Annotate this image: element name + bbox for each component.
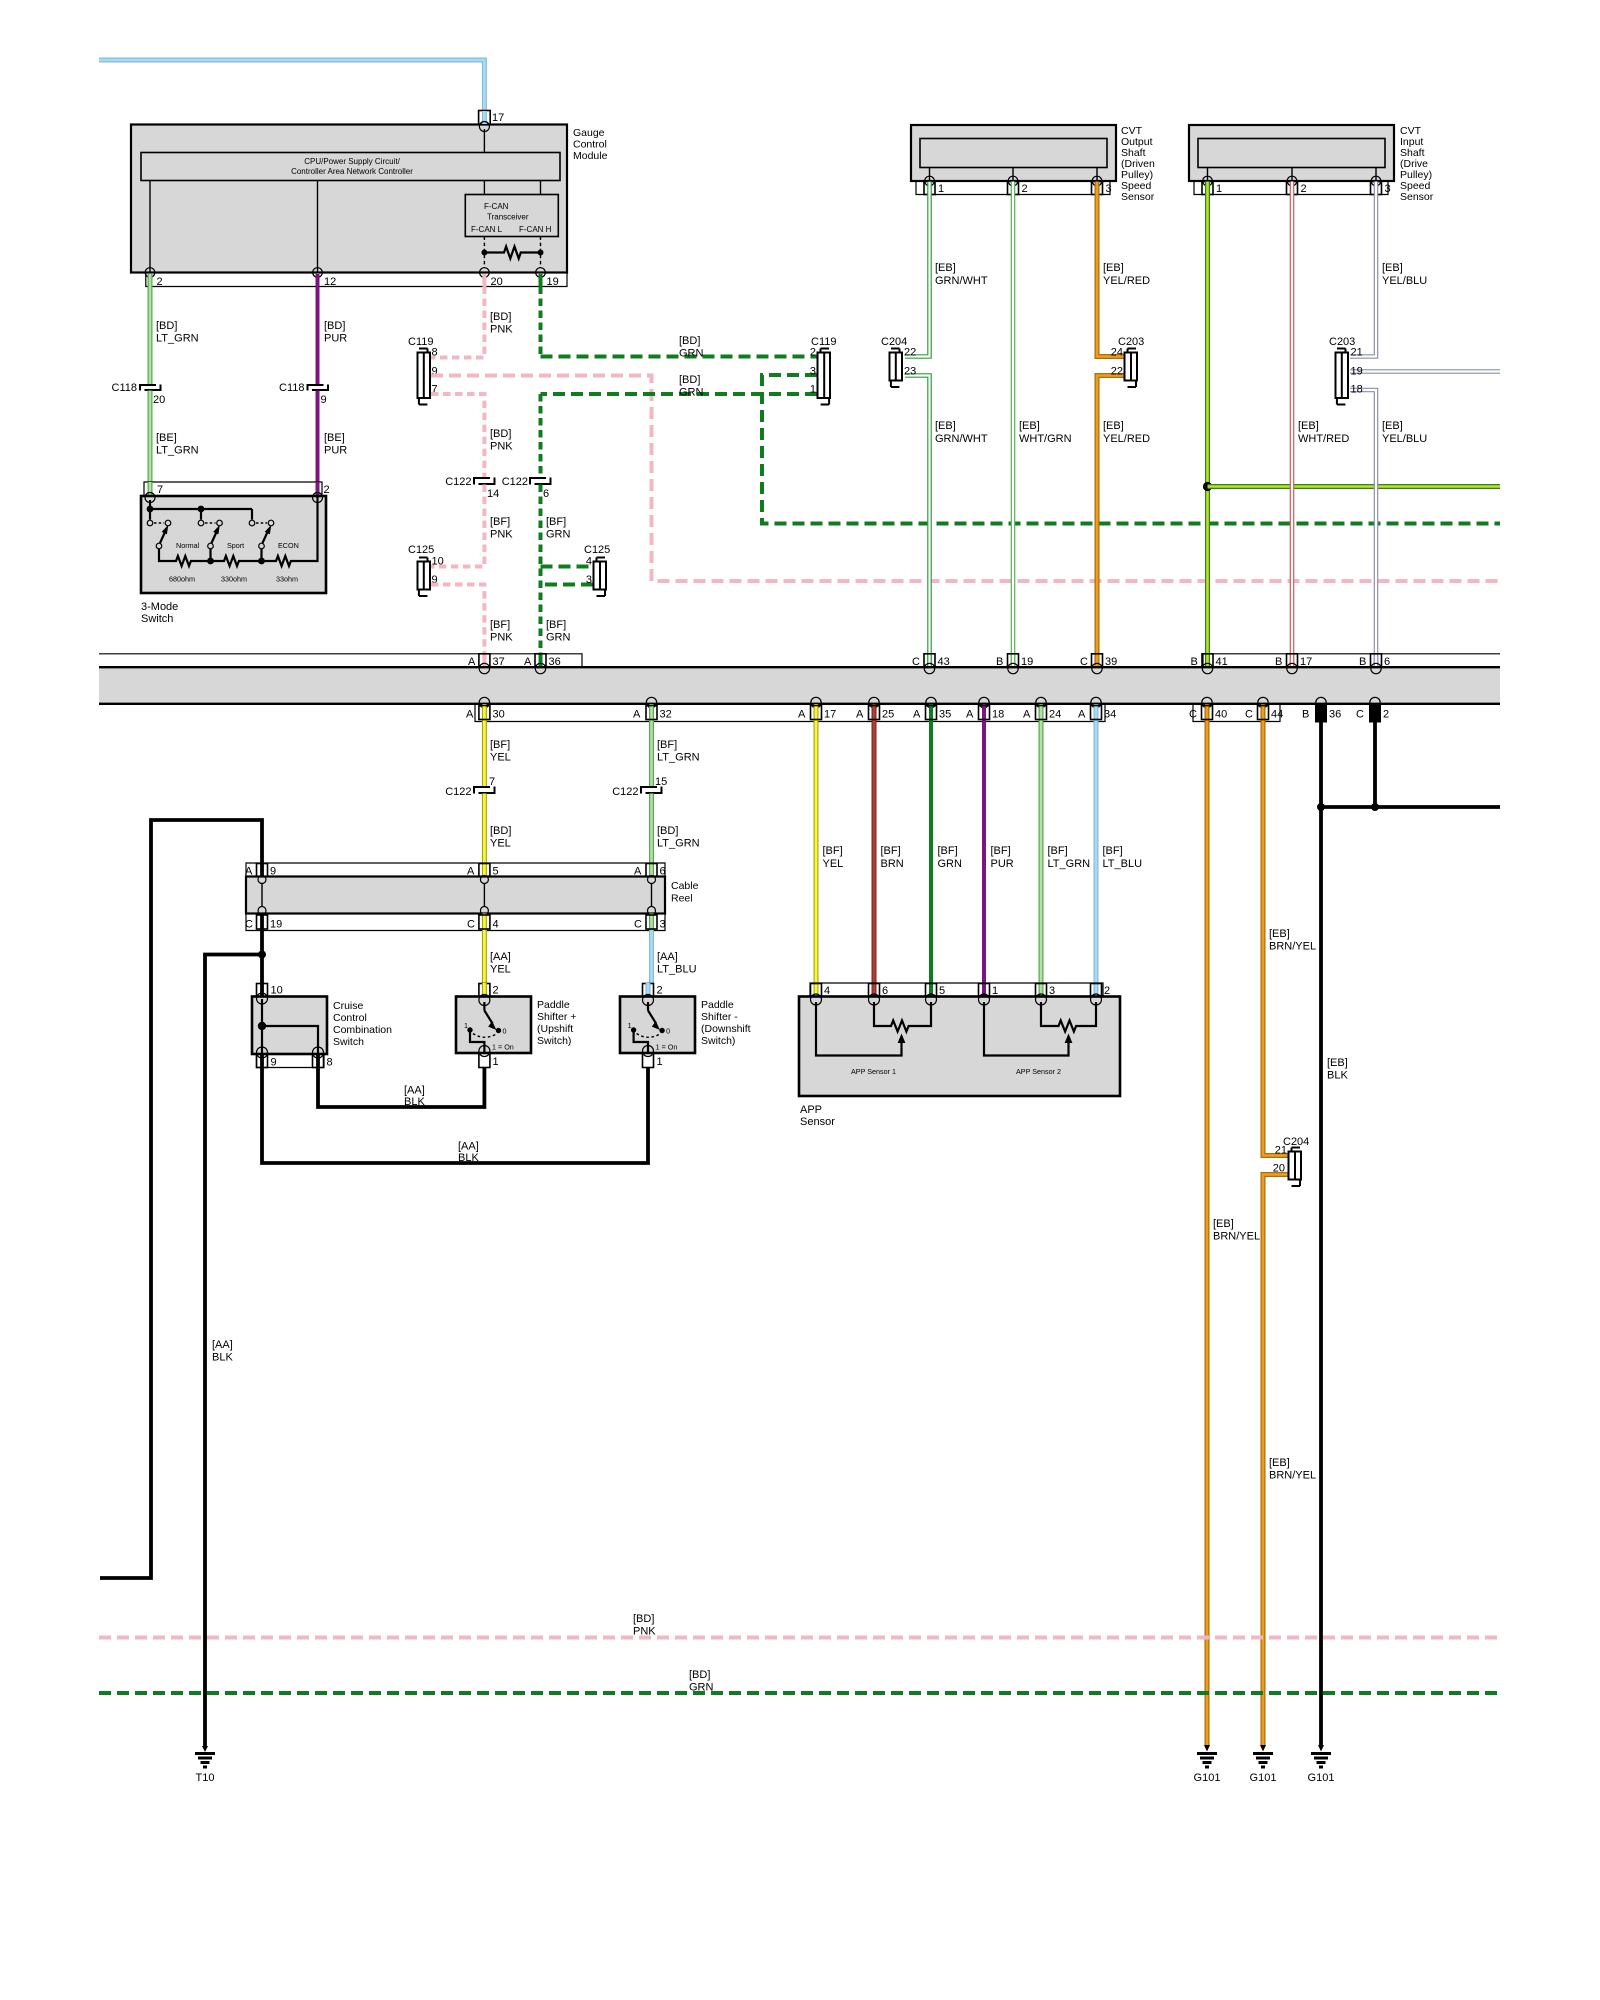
svg-text:[BF]: [BF] — [490, 619, 510, 631]
wire [BD] PUR pin12 to C118 — [318, 287, 348, 385]
svg-text:Normal: Normal — [176, 541, 200, 550]
svg-text:40: 40 — [1215, 709, 1227, 721]
connector C119 (right) — [810, 336, 837, 405]
connector C203 (top) — [1111, 336, 1145, 387]
connector C122 (pin 14) — [445, 476, 499, 500]
wire [BD] PNK pin20 down to C119 pin 8 — [431, 287, 513, 358]
svg-text:2: 2 — [1301, 183, 1307, 195]
svg-text:2: 2 — [1383, 709, 1389, 721]
svg-text:APP Sensor 1: APP Sensor 1 — [851, 1067, 896, 1076]
upshift paddle pin 2 — [479, 983, 499, 997]
connector C204 (lower) — [1273, 1136, 1310, 1186]
bus pin B19 — [996, 654, 1033, 674]
wire [BD] LT_GRN C122 down to cable reel pin A6 — [652, 794, 700, 864]
svg-text:PNK: PNK — [490, 632, 513, 644]
svg-text:Sensor: Sensor — [1121, 191, 1155, 203]
svg-text:3: 3 — [810, 366, 816, 378]
cable reel box — [246, 877, 699, 914]
cable reel internal link pin A5-C4 — [480, 876, 488, 915]
svg-text:C125: C125 — [584, 544, 610, 556]
svg-text:BRN: BRN — [881, 858, 904, 870]
svg-text:9: 9 — [271, 1057, 277, 1069]
cable reel pin row C — [245, 914, 666, 931]
svg-text:GRN: GRN — [679, 348, 704, 360]
wire [BD] GRN pin19 down to C119 pin 2 — [541, 287, 818, 360]
svg-text:15: 15 — [655, 776, 667, 788]
Sport switch — [198, 520, 244, 550]
ground G101 (C44 wire) — [1250, 1745, 1277, 1784]
svg-text:YEL/RED: YEL/RED — [1103, 275, 1150, 287]
svg-text:[BF]: [BF] — [991, 845, 1011, 857]
wire [BD] PNK long dashed line across page bottom — [99, 1613, 1500, 1638]
svg-text:B: B — [1359, 656, 1366, 668]
svg-text:C: C — [1356, 709, 1364, 721]
ground T10 — [195, 1746, 215, 1784]
svg-text:3: 3 — [1385, 183, 1391, 195]
svg-text:[BF]: [BF] — [938, 845, 958, 857]
pin 20 stub — [484, 274, 502, 288]
wire branch to C125 pin 4 — [541, 565, 594, 569]
wire black cable reel pin A9 up and left down page — [100, 820, 262, 1578]
wire [EB] BRN/YEL bus C44 down to C204 pin 21 — [1263, 722, 1316, 1156]
svg-text:C: C — [634, 919, 642, 931]
resistor 680ohm — [159, 549, 211, 584]
wire [BF] BRN bus A25 down to APP sensor pin 6 — [874, 722, 904, 984]
gauge control module box — [131, 125, 608, 273]
pin 17 connector box — [479, 111, 505, 132]
svg-text:[BD]: [BD] — [490, 428, 511, 440]
svg-text:[AA]: [AA] — [212, 1339, 233, 1351]
svg-text:YEL/BLU: YEL/BLU — [1382, 275, 1427, 287]
bus pin C44 — [1245, 697, 1283, 721]
svg-text:39: 39 — [1105, 656, 1117, 668]
svg-text:[EB]: [EB] — [935, 262, 956, 274]
svg-text:19: 19 — [270, 919, 282, 931]
svg-text:Switch): Switch) — [701, 1035, 735, 1047]
bus upper pin row box (connector B) — [1203, 654, 1500, 666]
svg-text:PNK: PNK — [490, 324, 513, 336]
svg-text:1: 1 — [657, 1056, 663, 1068]
svg-text:Controller Area Network Contro: Controller Area Network Controller — [291, 167, 413, 176]
svg-text:GRN: GRN — [689, 1682, 714, 1694]
svg-text:1: 1 — [628, 1021, 632, 1030]
svg-text:10: 10 — [432, 556, 444, 568]
svg-text:2: 2 — [493, 985, 499, 997]
output sensor internal pin drops — [930, 168, 1098, 182]
wire [BF] LT_GRN bus A24 down to APP sensor pin 3 — [1041, 722, 1090, 984]
connector C122 (pin 6) — [502, 476, 551, 500]
svg-text:43: 43 — [938, 656, 950, 668]
wire [BD] GRN C119 pin 1 left and down to C122 pin 6 — [541, 374, 818, 477]
svg-text:LT_GRN: LT_GRN — [156, 445, 199, 457]
wire [AA] BLK label for ground run — [212, 1339, 233, 1364]
svg-text:C122: C122 — [612, 786, 638, 798]
svg-text:G101: G101 — [1308, 1772, 1335, 1784]
svg-text:PNK: PNK — [490, 441, 513, 453]
svg-text:Reel: Reel — [671, 893, 693, 905]
svg-text:[BD]: [BD] — [679, 335, 700, 347]
svg-text:A: A — [466, 709, 474, 721]
svg-text:BRN/YEL: BRN/YEL — [1269, 1470, 1316, 1482]
svg-text:T10: T10 — [196, 1772, 215, 1784]
svg-text:GRN/WHT: GRN/WHT — [935, 275, 988, 287]
wire branch C125 pin 3 — [541, 583, 594, 587]
svg-text:Control: Control — [573, 139, 607, 151]
wire black bus C2 down to branch — [1373, 723, 1377, 808]
svg-text:Module: Module — [573, 150, 608, 162]
svg-text:C118: C118 — [112, 382, 137, 394]
bus pin B41 — [1191, 654, 1228, 674]
svg-text:BRN/YEL: BRN/YEL — [1269, 941, 1316, 953]
wire [EB] BRN/YEL bus C40 down to ground G101 — [1207, 722, 1260, 1746]
svg-text:[EB]: [EB] — [1269, 1457, 1290, 1469]
svg-text:17: 17 — [492, 112, 504, 124]
cruise switch pin row 9 and 8 — [257, 1054, 333, 1069]
svg-text:B: B — [1302, 709, 1309, 721]
wire [BE] LT_GRN C118 to 3-mode switch pin 7 — [150, 391, 199, 483]
wire [BE] PUR C118 to 3-mode switch pin 2 — [318, 391, 348, 483]
connector C119 (left) — [408, 336, 438, 405]
svg-text:C: C — [1245, 709, 1253, 721]
bus pin C43 — [912, 654, 950, 674]
svg-text:GRN: GRN — [679, 387, 704, 399]
svg-text:(Upshift: (Upshift — [537, 1023, 573, 1035]
F-CAN transceiver block — [465, 195, 558, 237]
svg-text:[EB]: [EB] — [1213, 1218, 1234, 1230]
bus pin A32 — [633, 697, 672, 721]
svg-text:30: 30 — [493, 709, 505, 721]
central junction bus bar — [99, 667, 1500, 704]
svg-text:19: 19 — [547, 276, 559, 288]
resistor 33ohm — [258, 496, 317, 584]
cruise switch internal wiring — [258, 999, 318, 1054]
svg-text:C122: C122 — [445, 476, 471, 488]
svg-text:Switch: Switch — [333, 1036, 364, 1048]
bus pin A17 — [798, 697, 836, 721]
svg-text:[BD]: [BD] — [324, 320, 345, 332]
svg-text:BRN/YEL: BRN/YEL — [1213, 1231, 1260, 1243]
svg-text:[AA]: [AA] — [404, 1085, 425, 1097]
svg-text:LT_GRN: LT_GRN — [156, 333, 199, 345]
downshift paddle pin 1 — [643, 1053, 663, 1068]
module pin row — [145, 268, 567, 287]
bus pin A18 — [966, 697, 1004, 721]
svg-text:C122: C122 — [502, 476, 528, 488]
wire [BD] LT_GRN pin2 to C118 — [150, 287, 199, 385]
wire pin17 to CPU block — [483, 129, 485, 153]
svg-text:PNK: PNK — [490, 529, 513, 541]
svg-text:A: A — [468, 656, 476, 668]
svg-text:2: 2 — [810, 347, 816, 359]
svg-text:330ohm: 330ohm — [221, 575, 247, 584]
wire: F-CAN blue feed to gauge module pin 17 — [99, 60, 484, 111]
connector C122 (pin 15) — [612, 776, 667, 798]
svg-text:[BD]: [BD] — [633, 1613, 654, 1625]
svg-text:A: A — [633, 709, 641, 721]
svg-text:17: 17 — [1300, 656, 1312, 668]
svg-text:[BF]: [BF] — [1048, 845, 1068, 857]
wire black C19 down to cruise switch pin 10 — [260, 931, 264, 985]
svg-text:1: 1 — [938, 183, 944, 195]
wire [BF] GRN bus A35 down to APP sensor pin 5 — [931, 722, 962, 984]
svg-text:1 = On: 1 = On — [492, 1043, 514, 1052]
svg-text:C: C — [1189, 709, 1197, 721]
svg-text:A: A — [798, 709, 806, 721]
svg-text:21: 21 — [1351, 347, 1363, 359]
svg-text:PNK: PNK — [633, 1626, 656, 1638]
svg-text:[BD]: [BD] — [156, 320, 177, 332]
resistor 330ohm — [207, 549, 261, 584]
internal wire CPU to F-CAN L — [483, 181, 485, 195]
svg-text:1: 1 — [493, 1056, 499, 1068]
svg-text:35: 35 — [939, 709, 951, 721]
wire black branch to T10 ground — [205, 955, 262, 1747]
svg-text:GRN/WHT: GRN/WHT — [935, 433, 988, 445]
svg-text:3: 3 — [660, 919, 666, 931]
svg-text:A: A — [1078, 709, 1086, 721]
svg-text:[BF]: [BF] — [1103, 845, 1123, 857]
svg-text:F-CAN L: F-CAN L — [471, 225, 503, 234]
svg-text:36: 36 — [1329, 709, 1341, 721]
APP sensor pin row — [810, 983, 1110, 997]
bus pin A36 — [524, 654, 561, 674]
svg-text:[EB]: [EB] — [1103, 262, 1124, 274]
svg-text:10: 10 — [271, 985, 283, 997]
internal wire CPU to pin 12 — [317, 181, 319, 273]
wire [EB] YEL/RED C203 pin 22 down to bus pin C39 — [1097, 376, 1150, 667]
cable reel pin row A — [245, 863, 666, 878]
3-mode switch box — [141, 493, 326, 626]
svg-text:[EB]: [EB] — [1382, 420, 1403, 432]
svg-text:LT_GRN: LT_GRN — [1048, 858, 1091, 870]
ground G101 (C40 wire) — [1194, 1745, 1221, 1784]
junction node at C2 — [1371, 803, 1379, 811]
Normal switch — [147, 520, 199, 550]
paddle shifter + (upshift switch) box — [456, 995, 576, 1057]
svg-text:4: 4 — [493, 919, 499, 931]
svg-text:CPU/Power Supply Circuit/: CPU/Power Supply Circuit/ — [304, 157, 400, 166]
bus pin B6 — [1359, 654, 1390, 674]
wire [BD] YEL C122 down to cable reel pin A5 — [484, 794, 511, 864]
upshift paddle pin 1 — [479, 1053, 499, 1068]
svg-text:[BF]: [BF] — [823, 845, 843, 857]
wire [BF] LT_BLU bus A34 down to APP sensor pin 2 — [1096, 722, 1142, 984]
wire [EB] GRN/WHT sensor pin1 to C204 pin 22 — [905, 182, 988, 357]
CVT output shaft speed sensor box — [911, 125, 1155, 203]
connector C125 (left) — [408, 544, 444, 596]
svg-text:G101: G101 — [1250, 1772, 1277, 1784]
svg-text:20: 20 — [1273, 1163, 1285, 1175]
svg-text:24: 24 — [1049, 709, 1061, 721]
wire C203 pin 19 to page edge — [1350, 369, 1500, 374]
connector C118 (pin 9) — [279, 382, 328, 406]
svg-text:19: 19 — [1351, 366, 1363, 378]
pin 19 stub — [541, 274, 559, 288]
wire [AA] YEL cable reel C4 down to upshift paddle pin 2 — [484, 931, 510, 984]
svg-text:Paddle: Paddle — [537, 999, 570, 1011]
svg-text:GRN: GRN — [546, 632, 571, 644]
svg-text:A: A — [524, 656, 532, 668]
svg-text:[BD]: [BD] — [679, 374, 700, 386]
APP sensor 2 wiper — [984, 1002, 1072, 1056]
svg-text:2: 2 — [1022, 183, 1028, 195]
wire [BD] PNK C119 pin 9 right and down to page edge — [431, 376, 1500, 582]
upshift switch internal contacts — [464, 1002, 514, 1052]
connector C204 (top) — [881, 336, 916, 387]
wire [BF] PUR bus A18 down to APP sensor pin 1 — [984, 722, 1014, 984]
svg-text:A: A — [966, 709, 974, 721]
cruise control combination switch pin 10 — [257, 984, 283, 998]
svg-text:32: 32 — [660, 709, 672, 721]
svg-text:25: 25 — [882, 709, 894, 721]
svg-text:Transceiver: Transceiver — [487, 213, 529, 222]
wire [EB] WHT/RED input sensor pin2 down to bus pin B17 — [1292, 182, 1349, 667]
svg-text:18: 18 — [992, 709, 1004, 721]
svg-text:22: 22 — [904, 347, 916, 359]
internal dashed F-CAN L line — [483, 237, 485, 269]
svg-text:GRN: GRN — [938, 858, 963, 870]
svg-text:7: 7 — [157, 484, 163, 496]
wire [BF] PNK C125 pin 9 down to bus pin A37 — [431, 585, 513, 667]
svg-text:BLK: BLK — [212, 1352, 233, 1364]
svg-text:0: 0 — [666, 1027, 670, 1036]
svg-text:Switch): Switch) — [537, 1035, 571, 1047]
wire [EB] GRN/YEL input sensor pin1 down to bus pin B41 — [1205, 182, 1210, 667]
svg-text:3: 3 — [1106, 183, 1112, 195]
svg-text:1 = On: 1 = On — [656, 1043, 678, 1052]
junction node on GRN/YEL wire — [1203, 482, 1212, 491]
svg-text:[EB]: [EB] — [1269, 928, 1290, 940]
svg-text:C122: C122 — [445, 786, 471, 798]
svg-text:Control: Control — [333, 1012, 367, 1024]
connector C203 (right) — [1329, 336, 1363, 405]
svg-text:BLK: BLK — [1327, 1070, 1348, 1082]
svg-text:Paddle: Paddle — [701, 999, 734, 1011]
svg-text:LT_BLU: LT_BLU — [657, 964, 697, 976]
svg-text:[BD]: [BD] — [657, 825, 678, 837]
wire black branch B36 to page edge — [1321, 805, 1500, 809]
svg-text:B: B — [996, 656, 1003, 668]
svg-text:GRN: GRN — [546, 529, 571, 541]
CAN termination resistor — [481, 247, 543, 259]
wire [AA] BLK cruise pin 9 to downshift paddle pin 1 — [262, 1068, 648, 1165]
internal wire CPU to pin 2 — [149, 181, 151, 273]
paddle shifter - (downshift switch) box — [620, 995, 751, 1057]
svg-text:6: 6 — [1384, 656, 1390, 668]
wire [EB] YEL/RED sensor pin3 to C203 pin 24 — [1097, 182, 1150, 357]
svg-text:[BF]: [BF] — [881, 845, 901, 857]
svg-text:PUR: PUR — [991, 858, 1014, 870]
svg-text:4: 4 — [586, 556, 592, 568]
svg-text:34: 34 — [1104, 709, 1116, 721]
3-mode switch pin row — [144, 482, 330, 496]
wire [BF] YEL bus A17 down to APP sensor pin 4 — [816, 722, 843, 984]
svg-text:17: 17 — [824, 709, 836, 721]
internal dashed F-CAN H line — [540, 237, 542, 269]
svg-text:B: B — [1275, 656, 1282, 668]
svg-text:C119: C119 — [408, 336, 433, 348]
internal wire CPU to F-CAN H — [540, 181, 542, 195]
svg-text:C118: C118 — [279, 382, 304, 394]
svg-text:Switch: Switch — [141, 613, 173, 625]
svg-text:LT_GRN: LT_GRN — [657, 838, 700, 850]
svg-text:Gauge: Gauge — [573, 127, 605, 139]
svg-text:8: 8 — [432, 347, 438, 359]
svg-text:APP Sensor 2: APP Sensor 2 — [1016, 1067, 1061, 1076]
svg-text:[BF]: [BF] — [490, 516, 510, 528]
svg-text:36: 36 — [549, 656, 561, 668]
svg-text:YEL/BLU: YEL/BLU — [1382, 433, 1427, 445]
svg-text:G101: G101 — [1194, 1772, 1221, 1784]
bus pin B17 — [1275, 654, 1312, 674]
svg-text:23: 23 — [904, 366, 916, 378]
wire [BF] YEL bus A30 down to C122 pin 7 — [484, 722, 510, 788]
bus pin C39 — [1080, 654, 1117, 674]
junction node at B36 branch — [1317, 803, 1325, 811]
svg-text:C: C — [467, 919, 475, 931]
input sensor pin row — [1194, 176, 1391, 195]
svg-text:A: A — [856, 709, 864, 721]
wire [BF] GRN C122 down to bus pin A36 with C125 branches — [541, 485, 571, 667]
svg-text:(Downshift: (Downshift — [701, 1023, 751, 1035]
svg-text:[BF]: [BF] — [657, 739, 677, 751]
svg-text:[BF]: [BF] — [490, 739, 510, 751]
svg-text:[EB]: [EB] — [1103, 420, 1124, 432]
cruise control combination switch box — [252, 993, 392, 1058]
svg-text:41: 41 — [1216, 656, 1228, 668]
svg-text:22: 22 — [1111, 366, 1123, 378]
svg-text:44: 44 — [1271, 709, 1283, 721]
svg-text:PUR: PUR — [324, 333, 347, 345]
bus pin A35 — [913, 697, 951, 721]
svg-text:C125: C125 — [408, 544, 434, 556]
svg-text:A: A — [1023, 709, 1031, 721]
svg-text:[BD]: [BD] — [490, 825, 511, 837]
APP sensor box — [799, 994, 1120, 1128]
svg-text:BLK: BLK — [458, 1152, 479, 1164]
svg-text:2: 2 — [324, 484, 330, 496]
svg-text:2: 2 — [157, 276, 163, 288]
bus pin A30 — [466, 697, 505, 721]
svg-text:19: 19 — [1021, 656, 1033, 668]
svg-text:C: C — [245, 919, 253, 931]
svg-text:[EB]: [EB] — [935, 420, 956, 432]
svg-text:Shifter -: Shifter - — [701, 1011, 738, 1023]
svg-text:[BE]: [BE] — [324, 432, 345, 444]
svg-text:WHT/GRN: WHT/GRN — [1019, 433, 1072, 445]
bus upper pin row box (connector A) — [99, 654, 582, 666]
svg-text:18: 18 — [1351, 384, 1363, 396]
svg-text:YEL: YEL — [823, 858, 844, 870]
svg-text:Cable: Cable — [671, 880, 699, 892]
svg-text:3-Mode: 3-Mode — [141, 601, 178, 613]
svg-text:[AA]: [AA] — [657, 951, 678, 963]
wire [BF] PNK C122 to C125 pin 10 — [431, 485, 513, 567]
svg-text:LT_GRN: LT_GRN — [657, 752, 700, 764]
svg-text:680ohm: 680ohm — [169, 575, 195, 584]
pin 2 stub — [150, 274, 163, 288]
svg-text:20: 20 — [491, 276, 503, 288]
svg-text:20: 20 — [153, 394, 165, 406]
svg-text:37: 37 — [493, 656, 505, 668]
svg-text:YEL: YEL — [490, 752, 511, 764]
ECON switch — [249, 520, 299, 550]
svg-text:24: 24 — [1111, 347, 1123, 359]
svg-text:[EB]: [EB] — [1327, 1057, 1348, 1069]
svg-text:[BF]: [BF] — [546, 619, 566, 631]
svg-text:1: 1 — [810, 384, 816, 396]
bus pin A37 — [468, 654, 505, 674]
